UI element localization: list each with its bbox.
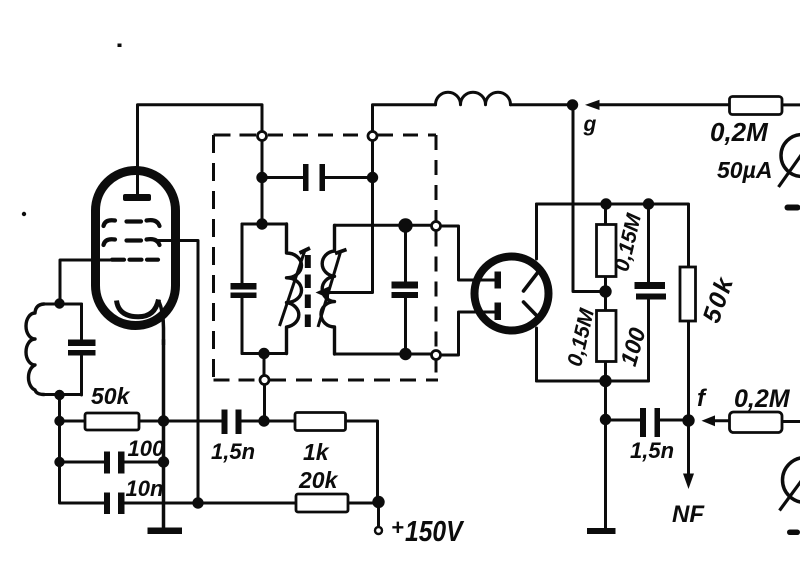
tube V2 cathode strokes bbox=[524, 272, 539, 318]
ground right bbox=[587, 528, 616, 534]
coupling cap row wires bbox=[262, 176, 373, 179]
tube V1 grid3 bbox=[112, 258, 158, 262]
wire 1.5n to 1k row bbox=[242, 421, 378, 502]
tube V1 anode bbox=[123, 194, 151, 201]
arrow tap into tank2 coil bbox=[316, 287, 330, 299]
node f dot bbox=[682, 414, 694, 426]
junction plate-cap left bbox=[256, 172, 267, 183]
tank2 rails bbox=[336, 225, 432, 354]
svg-text:100: 100 bbox=[128, 436, 165, 461]
svg-text:100: 100 bbox=[615, 325, 651, 369]
junction tank2 bottom bbox=[399, 348, 411, 360]
svg-text:0,15M: 0,15M bbox=[563, 306, 599, 369]
svg-text:20k: 20k bbox=[298, 467, 339, 493]
speck left bbox=[22, 212, 26, 216]
resistor 20k bbox=[296, 494, 348, 512]
resistor 0.15M lower bbox=[597, 311, 617, 362]
capacitor 100 left bbox=[104, 452, 125, 474]
tube V2 anode1 bbox=[495, 272, 502, 289]
wire arrow to 0.2M top bbox=[598, 103, 730, 106]
wire plate top bbox=[138, 105, 263, 196]
capacitor 100 right bbox=[635, 282, 667, 300]
junction antenna tank bottom bbox=[54, 390, 64, 400]
capacitor coupling top bbox=[303, 164, 325, 191]
junction divider top rail bbox=[600, 198, 611, 209]
wire g down to divider mid bbox=[573, 105, 606, 292]
wire left column bbox=[60, 395, 105, 503]
wire 150V terminal bbox=[377, 502, 380, 527]
shield terminal node 5 bbox=[260, 376, 269, 385]
wire cap100 branch bbox=[647, 204, 650, 381]
arrow into node f bbox=[702, 415, 716, 426]
svg-text:0,2M: 0,2M bbox=[710, 117, 769, 147]
junction cathode 50k row bbox=[158, 415, 169, 426]
capacitor tank2 bbox=[392, 282, 419, 299]
junction divider bottom rail bbox=[599, 375, 611, 387]
wire 50k right to f bbox=[687, 321, 690, 421]
svg-text:f: f bbox=[697, 385, 707, 412]
wire grid2 down bbox=[158, 241, 198, 504]
transformer core bbox=[305, 255, 311, 327]
wire 10n row right bbox=[125, 502, 379, 505]
junction antenna tank top bbox=[54, 298, 64, 308]
wire NF down bbox=[687, 421, 690, 475]
wire tank-left cap branch bbox=[80, 304, 83, 395]
junction 1.5n 1k row bbox=[258, 415, 269, 426]
meter M1 50uA bbox=[779, 135, 800, 188]
junction divider midpoint bbox=[599, 285, 611, 297]
svg-text:50µA: 50µA bbox=[717, 157, 772, 183]
wire right bottom rail bbox=[537, 380, 649, 383]
tube V1 cathode lead bbox=[159, 300, 164, 345]
resistor 0.2M bottom bbox=[730, 412, 783, 433]
svg-text:1k: 1k bbox=[303, 439, 330, 465]
wire 0.2M top to edge bbox=[782, 103, 800, 106]
junction 1.5n right row bbox=[600, 414, 611, 425]
tank1 frame bbox=[44, 304, 82, 395]
wire diode lower plate bbox=[441, 312, 496, 355]
junction cap100 top rail bbox=[643, 198, 654, 209]
wire 100 row bbox=[60, 461, 164, 464]
wire f arrow to 0.2M bbox=[714, 419, 730, 422]
wire tank2 top vertical bbox=[329, 141, 373, 293]
tank1 rails bbox=[242, 224, 287, 354]
wire grid3 lead bbox=[60, 260, 110, 304]
svg-text:50k: 50k bbox=[91, 383, 131, 409]
svg-text:50k: 50k bbox=[697, 272, 739, 326]
tube V1 cathode bbox=[117, 300, 159, 317]
svg-text:1,5n: 1,5n bbox=[630, 438, 674, 463]
tube V1 grid1 bbox=[104, 220, 160, 226]
junction cathode 100 row bbox=[158, 456, 169, 467]
junction plate-cap right bbox=[367, 172, 378, 183]
shield terminal node 2 bbox=[368, 132, 377, 141]
inductor L1 choke bbox=[436, 92, 511, 105]
junction tank1 bottom bbox=[258, 348, 269, 359]
trimmer arrow tank1 bbox=[280, 248, 311, 326]
inductor tank2 coil bbox=[321, 225, 335, 354]
svg-text:g: g bbox=[583, 113, 597, 136]
resistor 1k bbox=[295, 413, 346, 431]
inductor tank1 coil bbox=[287, 224, 302, 354]
svg-text:0,15M: 0,15M bbox=[610, 211, 646, 274]
wire cathode ground bbox=[162, 340, 166, 528]
svg-text:150V: 150V bbox=[405, 515, 464, 547]
wire divider segments bbox=[604, 204, 607, 381]
inductor tank-left coil bbox=[26, 304, 44, 395]
ground left bbox=[148, 528, 183, 535]
svg-text:+: + bbox=[391, 515, 404, 540]
wire tank1 bottom to 1.5n row bbox=[263, 354, 267, 422]
arrow NF output bbox=[683, 474, 694, 490]
tube V2 envelope bbox=[475, 257, 549, 331]
capacitor tank1 bbox=[231, 283, 257, 298]
capacitor 10n bbox=[104, 493, 125, 515]
svg-text:10n: 10n bbox=[126, 476, 164, 501]
capacitor 1.5n left bbox=[222, 410, 242, 435]
svg-text:0,2M: 0,2M bbox=[734, 385, 791, 413]
svg-text:1,5n: 1,5n bbox=[211, 439, 255, 464]
junction grid2 10n row bbox=[192, 497, 203, 508]
junction 20k 150V bbox=[372, 496, 384, 508]
resistor 0.2M top bbox=[730, 97, 783, 115]
junction 50k row left bbox=[54, 416, 64, 426]
wire node1 to tank1 rail bbox=[261, 141, 264, 225]
tube V2 anode2 bbox=[495, 303, 502, 321]
tube V1 grid2 bbox=[104, 239, 160, 245]
node g dot bbox=[567, 99, 578, 110]
capacitor 1.5n right bbox=[640, 408, 660, 437]
junction tank2 top bbox=[398, 218, 412, 232]
wire diode cathode vertical bbox=[535, 204, 538, 381]
wire 50k row bbox=[60, 420, 222, 423]
wire top right to choke bbox=[373, 105, 436, 132]
arrow into node g bbox=[585, 100, 600, 110]
shield terminal node 1 bbox=[258, 132, 267, 141]
dashed shield box bbox=[214, 135, 439, 380]
tube V1 envelope bbox=[96, 171, 176, 326]
trimmer arrow tank2 bbox=[318, 250, 347, 328]
wire 0.2M bottom to edge bbox=[782, 420, 800, 423]
shield terminal node 3 bbox=[432, 222, 441, 231]
terminal +150V bbox=[375, 527, 382, 534]
capacitor tank-left bbox=[68, 340, 96, 356]
wire tank1 cap branch bbox=[241, 224, 244, 354]
wire choke to g bbox=[511, 103, 573, 106]
meter M2 bbox=[780, 458, 800, 511]
wire 1.5n right row bbox=[606, 381, 689, 531]
resistor 0.15M upper bbox=[597, 225, 617, 277]
wire right top rail bbox=[537, 204, 689, 267]
svg-text:NF: NF bbox=[672, 501, 705, 528]
wire diode upper plate bbox=[441, 226, 496, 280]
speck top bbox=[118, 44, 122, 48]
resistor 50k left bbox=[85, 413, 139, 430]
wire tank2 cap branch bbox=[404, 226, 407, 355]
resistor 50k right bbox=[680, 267, 696, 321]
junction tank1 top bbox=[256, 218, 267, 229]
shield terminal node 4 bbox=[432, 351, 441, 360]
junction 100 row left bbox=[54, 457, 64, 467]
